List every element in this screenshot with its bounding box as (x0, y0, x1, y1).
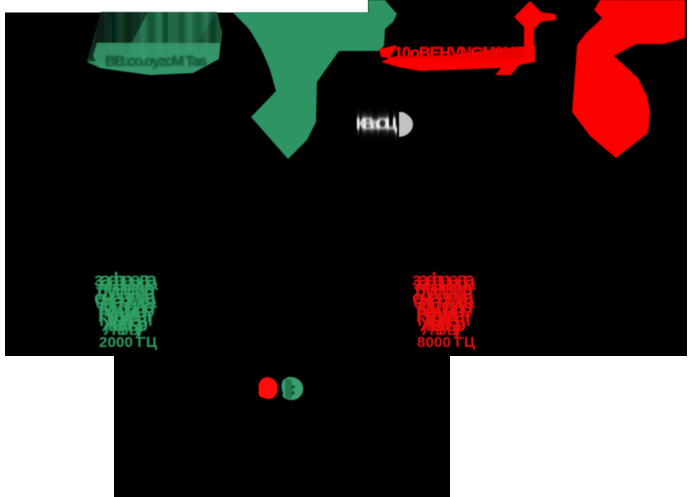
gray blurred label KBaOU (356, 112, 413, 137)
svg-text:2000 ГЦ: 2000 ГЦ (99, 334, 157, 351)
svg-text:КВаОЦ: КВаОЦ (356, 116, 397, 133)
svg-text:8000 ГЦ: 8000 ГЦ (417, 334, 475, 351)
svg-text:BB:co.oyzcM Tas: BB:co.oyzcM Tas (105, 53, 207, 70)
small red blob (258, 377, 277, 399)
red diamond (514, 1, 556, 48)
svg-text:10oBEHVNGM9Ms: 10oBEHVNGM9Ms (394, 45, 524, 62)
big red arrow (572, 0, 685, 158)
small green blob (282, 377, 304, 400)
red overlapped text block (412, 270, 476, 351)
green overlapped text block (94, 270, 158, 351)
main green arrow body (233, 0, 397, 159)
left green striated band (87, 12, 222, 75)
red text band (379, 45, 535, 75)
